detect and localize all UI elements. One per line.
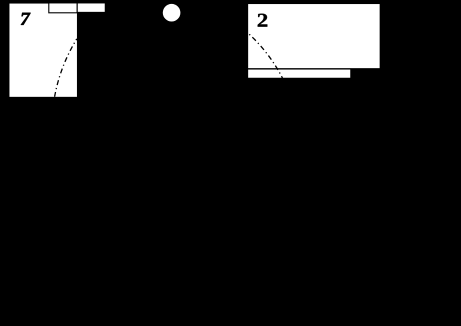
- label 2: [258, 14, 268, 27]
- room 2 outline: [248, 4, 381, 69]
- window sill C below room 2: [248, 69, 351, 78]
- window sill A on room 7: [49, 3, 77, 13]
- room 7 outline: [9, 3, 78, 97]
- door swing arc room 7: [55, 39, 77, 97]
- window sill B right of room 7: [77, 3, 105, 13]
- door swing arc room 2: [248, 33, 284, 81]
- label 7: [21, 13, 31, 25]
- column circle: [163, 4, 181, 22]
